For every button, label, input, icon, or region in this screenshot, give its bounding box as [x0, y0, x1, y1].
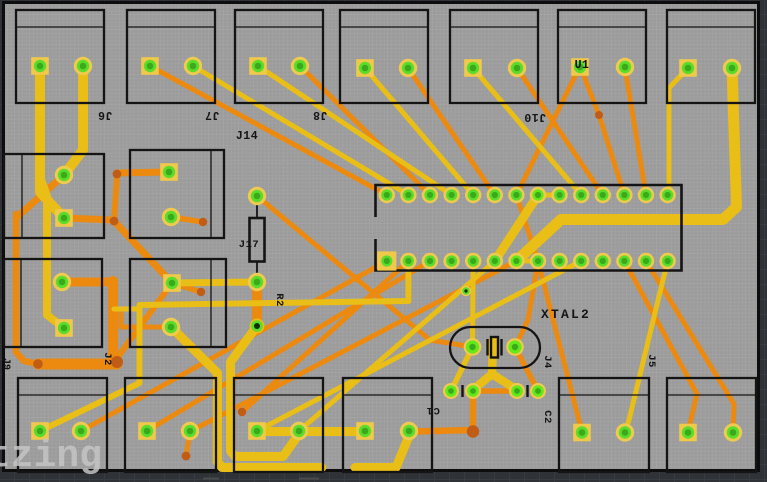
wire: [473, 388, 517, 394]
wire: [258, 66, 452, 195]
wire: [252, 282, 262, 326]
wire: [516, 195, 538, 261]
wire: [257, 427, 365, 436]
via: [182, 452, 191, 461]
wire: [81, 261, 387, 431]
pad IC: [422, 253, 438, 269]
pad round: [290, 422, 308, 440]
connector outline bottom 2: [125, 378, 216, 472]
wire: [516, 68, 736, 261]
wire: [150, 66, 387, 195]
pad IC: [659, 253, 675, 269]
via: [113, 170, 122, 179]
dark via below J17: [250, 319, 265, 334]
connector outline bottom 1: [18, 378, 107, 472]
pad round: [248, 187, 266, 205]
wire: [257, 261, 581, 431]
wire: [515, 261, 538, 347]
pad round: [181, 422, 199, 440]
wire: [517, 68, 603, 195]
crystal XTAL2 outline: [450, 327, 540, 368]
pad square: [55, 209, 73, 227]
pad round: [616, 58, 634, 76]
wire: [171, 217, 203, 222]
pad round: [72, 422, 90, 440]
pad crystal: [464, 338, 482, 356]
pad IC: [659, 187, 675, 203]
svg-text:J5: J5: [645, 354, 657, 368]
pad round: [508, 59, 526, 77]
pad round: [53, 273, 71, 291]
pad square: [138, 422, 156, 440]
pad round: [723, 59, 741, 77]
svg-text:C2: C2: [541, 410, 553, 424]
wire: [114, 307, 138, 312]
wire: [515, 347, 538, 391]
pad capacitor: [465, 383, 481, 399]
svg-text:C1: C1: [426, 404, 440, 416]
connector J1 outline: [667, 10, 755, 103]
pad square: [163, 274, 181, 292]
pad round: [400, 422, 418, 440]
wire: [40, 66, 64, 218]
pad square: [31, 57, 49, 75]
pad IC: [530, 253, 546, 269]
wire: [186, 261, 516, 456]
wire: [16, 175, 64, 218]
pad square: [141, 57, 159, 75]
svg-text:J2: J2: [101, 352, 113, 366]
wire: [669, 68, 688, 195]
pad IC: [551, 253, 567, 269]
pad round: [162, 318, 180, 336]
pad IC: [400, 187, 416, 203]
top copper traces: [40, 66, 737, 468]
svg-text:XTAL2: XTAL2: [541, 307, 591, 322]
vias: [33, 111, 603, 460]
svg-text:J14: J14: [236, 130, 258, 143]
pad IC: [508, 187, 524, 203]
wire: [538, 193, 560, 198]
connector outline bottom 4: [343, 378, 432, 472]
via: [238, 408, 246, 416]
crystal symbol: [488, 337, 502, 358]
connector J8 outline: [235, 10, 323, 103]
wire: [16, 214, 38, 364]
wire: [242, 261, 408, 412]
svg-text:J4: J4: [541, 355, 553, 369]
via: [111, 356, 123, 368]
wire: [580, 66, 624, 195]
pad IC: [400, 253, 416, 269]
wire: [121, 309, 171, 327]
connector outline bottom 6: [667, 378, 756, 472]
wire: [172, 283, 201, 292]
wire: [231, 326, 300, 457]
svg-text:U1: U1: [575, 59, 590, 72]
svg-text:J17: J17: [239, 239, 259, 251]
wire: [625, 261, 668, 432]
connector A2 outline: [130, 150, 224, 238]
pad square: [249, 57, 267, 75]
capacitor C2 mark: [526, 385, 528, 397]
pad capacitor: [509, 383, 525, 399]
pad square: [464, 59, 482, 77]
pad square: [356, 422, 374, 440]
pad round: [184, 57, 202, 75]
wire: [117, 283, 172, 358]
wire: [38, 359, 117, 370]
wire: [538, 261, 582, 432]
pad round: [399, 59, 417, 77]
pad square: [573, 424, 591, 442]
wire: [413, 391, 473, 432]
wire: [451, 347, 473, 391]
IC DIP-28 outline: [376, 185, 682, 271]
wire: [474, 340, 493, 389]
wire: [117, 172, 169, 173]
pad round: [55, 166, 73, 184]
connector A1 outline: [4, 154, 104, 238]
pad IC: [551, 187, 567, 203]
pad round: [724, 423, 742, 441]
pad round: [616, 423, 634, 441]
pad crystal: [506, 338, 524, 356]
pad IC: [595, 187, 611, 203]
svg-text:J10: J10: [524, 110, 546, 123]
pad square: [679, 59, 697, 77]
wire: [473, 68, 581, 195]
connector outline bottom 5: [559, 378, 649, 472]
pad IC: [638, 187, 654, 203]
connector B1 outline: [4, 259, 102, 347]
via: [110, 217, 119, 226]
pad capacitor: [443, 383, 459, 399]
pad IC: [638, 253, 654, 269]
wire: [42, 182, 64, 328]
wire: [40, 261, 408, 431]
capacitor C1 mark: [461, 385, 463, 397]
pad square: [679, 424, 697, 442]
pad square: [55, 319, 73, 337]
pad IC: [616, 253, 632, 269]
wire: [365, 68, 473, 195]
connector U1 outline: [558, 10, 646, 103]
pad IC: [573, 187, 589, 203]
wire: [147, 261, 430, 431]
wire: [108, 281, 118, 362]
bottom cut labels: [203, 478, 319, 480]
pad capacitor: [530, 383, 546, 399]
wire: [408, 68, 495, 195]
via: [197, 288, 205, 296]
wire: [492, 374, 517, 390]
wire: [114, 176, 117, 221]
connector J7 outline: [127, 10, 215, 103]
pad square: [571, 58, 589, 76]
wire: [64, 218, 114, 220]
wire: [64, 66, 83, 175]
pad square: [160, 163, 178, 181]
pad IC: [508, 253, 524, 269]
via: [595, 111, 603, 119]
pad IC: [530, 187, 546, 203]
svg-text:J9: J9: [0, 358, 11, 370]
wire: [355, 436, 409, 468]
pad square: [356, 59, 374, 77]
pads: [31, 57, 742, 442]
wire: [300, 66, 430, 195]
via: [467, 425, 479, 437]
wire: [193, 66, 408, 195]
wire: [114, 221, 172, 283]
pad round: [248, 273, 266, 291]
wire: [624, 261, 697, 432]
pad IC: [465, 187, 481, 203]
via: [33, 359, 43, 369]
wire: [646, 261, 734, 432]
connector J10 outline: [450, 10, 538, 103]
wire: [495, 195, 538, 261]
pad IC: [379, 187, 395, 203]
svg-text:R2: R2: [273, 293, 285, 307]
connector outline bottom 3: [234, 378, 323, 472]
pad IC: [443, 253, 459, 269]
wire: [516, 66, 580, 195]
pad IC: [616, 187, 632, 203]
resistor J17 body: [250, 218, 265, 262]
bottom copper traces: [16, 66, 734, 456]
connector J14 outline: [340, 10, 428, 103]
connector J6 outline: [16, 10, 104, 103]
pad IC: [443, 187, 459, 203]
wire: [172, 282, 257, 283]
pad round: [74, 57, 92, 75]
pad round: [162, 208, 180, 226]
svg-text:J6: J6: [98, 108, 113, 121]
green via: [461, 286, 471, 296]
wire: [62, 278, 113, 287]
wire: [257, 196, 473, 347]
partial label left edge: [0, 358, 11, 370]
via: [199, 218, 207, 226]
wire: [171, 327, 322, 468]
pad square: [248, 422, 266, 440]
pad IC: [487, 253, 503, 269]
pad IC: [465, 253, 481, 269]
pad IC pin1: [377, 251, 396, 270]
svg-text:J8: J8: [313, 108, 328, 121]
pad IC: [595, 253, 611, 269]
wire: [516, 259, 538, 264]
wire: [625, 68, 646, 195]
svg-text:tzing: tzing: [0, 435, 102, 478]
pad square: [31, 422, 49, 440]
svg-text:J7: J7: [205, 108, 220, 121]
pad IC: [487, 187, 503, 203]
wire: [299, 261, 495, 431]
connector B2 outline: [130, 259, 226, 347]
pad IC: [422, 187, 438, 203]
pad round: [291, 57, 309, 75]
wire: [470, 261, 476, 347]
pad IC: [573, 253, 589, 269]
